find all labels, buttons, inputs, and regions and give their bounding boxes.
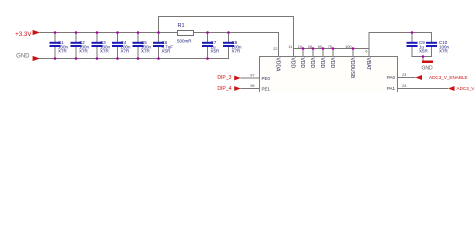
svg-text:X7R: X7R [141, 49, 151, 54]
svg-text:PE0: PE0 [262, 76, 271, 81]
svg-text:GND: GND [421, 66, 433, 72]
svg-text:GND: GND [16, 54, 30, 60]
svg-text:X7R: X7R [121, 49, 131, 54]
svg-text:VDDA: VDDA [275, 58, 281, 73]
svg-text:6: 6 [365, 50, 367, 54]
svg-text:VDD: VDD [309, 58, 315, 69]
svg-text:75: 75 [328, 45, 332, 49]
svg-text:24: 24 [402, 84, 406, 88]
svg-text:X7R: X7R [439, 49, 449, 54]
svg-text:X5R: X5R [211, 49, 221, 54]
svg-text:DIP_4: DIP_4 [217, 86, 231, 92]
svg-text:ADC3_V_ENABLE: ADC3_V_ENABLE [429, 75, 468, 80]
svg-text:VDD: VDD [319, 58, 325, 69]
svg-text:DIP_3: DIP_3 [217, 75, 231, 81]
svg-text:VBAT: VBAT [365, 58, 371, 71]
svg-text:11: 11 [288, 45, 292, 49]
svg-text:X7R: X7R [100, 49, 110, 54]
svg-text:+3.3V: +3.3V [15, 31, 32, 38]
svg-text:97: 97 [250, 74, 254, 78]
svg-text:28: 28 [308, 45, 312, 49]
svg-text:X7R: X7R [58, 49, 68, 54]
svg-text:98: 98 [250, 84, 254, 88]
svg-text:23: 23 [402, 73, 406, 77]
svg-text:VDD: VDD [329, 58, 335, 69]
svg-text:50: 50 [318, 45, 322, 49]
svg-text:X5R: X5R [162, 49, 172, 54]
svg-text:PA1: PA1 [387, 86, 396, 91]
svg-text:X7R: X7R [79, 49, 89, 54]
svg-text:PA0: PA0 [387, 75, 396, 80]
svg-text:VDDUSB: VDDUSB [349, 58, 355, 80]
svg-text:500mR: 500mR [177, 38, 192, 43]
svg-text:X7R: X7R [232, 49, 242, 54]
svg-text:VDD: VDD [289, 58, 295, 69]
svg-text:R1: R1 [178, 23, 185, 29]
svg-text:100: 100 [345, 45, 351, 49]
svg-text:PE1: PE1 [262, 87, 271, 92]
svg-text:19: 19 [298, 45, 302, 49]
svg-text:X5R: X5R [419, 49, 429, 54]
svg-text:ADC3_V_SENSE: ADC3_V_SENSE [457, 86, 474, 91]
svg-text:VDD: VDD [299, 58, 305, 69]
svg-text:22: 22 [273, 47, 277, 51]
